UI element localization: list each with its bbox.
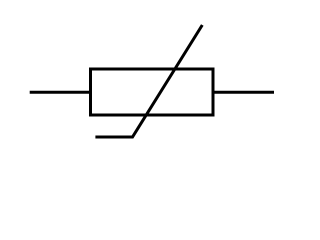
- varistor diagonal stroke: [95, 25, 202, 137]
- varistor body: [91, 69, 214, 115]
- wire right lead: [213, 91, 274, 94]
- wire left lead: [30, 91, 90, 94]
